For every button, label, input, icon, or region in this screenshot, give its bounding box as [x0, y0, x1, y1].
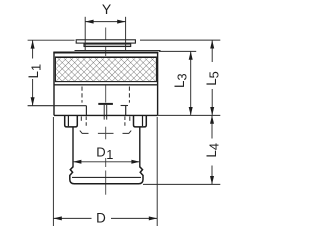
internal step edge left (with L1 extension)	[28, 105, 87, 107]
knurled ring border	[55, 57, 156, 82]
dimension D line right segment	[111, 217, 157, 219]
hidden corner dash left diagonal	[80, 131, 89, 134]
right claw inner step	[142, 115, 144, 126]
center cross horizontal tick	[98, 132, 114, 134]
shared extension line at shoulder	[158, 114, 221, 116]
svg-text:L5: L5	[204, 71, 222, 86]
expansion slot right line	[106, 105, 108, 120]
dimension D1 left arrow	[73, 160, 81, 164]
body top edge	[53, 52, 158, 54]
lower collar outline with relief jog	[70, 167, 143, 184]
hidden square hole right dashed edge	[128, 87, 130, 103]
svg-text:L1: L1	[26, 64, 44, 79]
dimension L1 bottom arrow	[31, 97, 35, 105]
ring under disc (dark band)	[84, 44, 131, 47]
expansion slot left line	[103, 105, 105, 120]
dimension D1 right arrow	[131, 160, 139, 164]
dimension Y extension left	[84, 17, 86, 51]
ring lower rim line	[54, 84, 158, 86]
dimension L4 top arrow	[210, 115, 214, 123]
hidden square lower dash left	[80, 116, 82, 120]
dimension D line left segment	[53, 217, 91, 219]
inner cylinder right hidden continuation	[124, 116, 126, 126]
left claw inner step	[67, 115, 69, 126]
hidden square hole left dashed edge	[81, 87, 83, 103]
dimension Y left arrow	[85, 20, 93, 24]
dimension L5 bottom arrow	[210, 107, 214, 115]
dimension L4 bottom arrow	[210, 176, 214, 184]
svg-text:1: 1	[106, 147, 113, 162]
dimension L3 top extension	[159, 50, 196, 52]
dimension L4 bottom extension	[143, 183, 220, 185]
dimension L1 line	[32, 40, 34, 58]
internal step edge right (short)	[121, 105, 128, 107]
dimension D1 line	[73, 161, 140, 163]
thin plate line above body	[75, 50, 161, 52]
dimension D left arrow	[53, 216, 61, 220]
body left edge	[53, 52, 55, 116]
dimension L5 top arrow	[210, 40, 214, 48]
knurl top thick edge	[55, 56, 156, 58]
dimension L4 line lower	[211, 166, 213, 185]
dimension D left extension	[52, 117, 54, 226]
hidden corner dash right diagonal	[123, 131, 132, 134]
dimension L1 top arrow	[31, 40, 35, 48]
dimension D right arrow	[149, 216, 157, 220]
dimension L4 line upper	[211, 115, 213, 138]
hidden square lower dash right	[129, 116, 131, 120]
dimension L5 line upper	[211, 40, 213, 62]
svg-text:L4: L4	[204, 143, 222, 158]
svg-text:L3: L3	[172, 73, 190, 88]
dimension Y right arrow	[117, 20, 125, 24]
svg-text:D: D	[96, 211, 106, 226]
svg-text:Y: Y	[102, 1, 112, 17]
top disc (flange plate)	[76, 40, 135, 43]
right claw	[134, 115, 147, 127]
hidden hole bottom bar	[98, 103, 113, 105]
dimension L3 line	[190, 51, 192, 115]
dimension L3 bottom arrow	[189, 107, 193, 115]
claw shoulder line	[54, 114, 158, 116]
body right edge	[157, 52, 159, 116]
dimension L3 top arrow	[189, 51, 193, 59]
dimension D right extension	[156, 117, 158, 226]
inner cylinder left edge	[85, 106, 87, 116]
dimension L5 top extension	[140, 39, 220, 41]
dimension Y line	[85, 21, 125, 23]
inner cylinder left hidden continuation	[85, 116, 87, 126]
knurl crosshatch	[56, 58, 155, 81]
inner cylinder right edge	[125, 106, 127, 116]
dimension L5 line lower	[211, 89, 213, 115]
left claw	[65, 115, 78, 127]
dimension Y extension right	[125, 17, 127, 51]
neck left edge (D1 cylinder)	[72, 127, 74, 168]
svg-text:D: D	[96, 145, 105, 160]
collar top face line	[72, 176, 141, 178]
centerline (vertical axis)	[105, 28, 107, 195]
dimension L1 top extension	[28, 39, 75, 41]
neck right edge (D1 cylinder)	[139, 127, 141, 168]
